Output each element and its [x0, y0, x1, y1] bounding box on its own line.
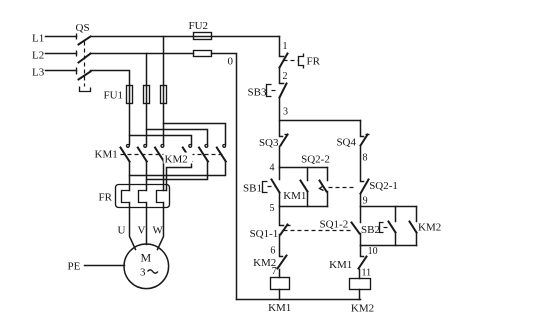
svg-text:L2: L2 [32, 50, 44, 62]
svg-text:PE: PE [68, 261, 81, 273]
svg-text:5: 5 [270, 203, 275, 214]
svg-text:8: 8 [363, 153, 368, 164]
svg-text:6: 6 [270, 246, 275, 257]
svg-text:M: M [140, 251, 151, 265]
svg-text:U: U [118, 225, 126, 237]
svg-text:3: 3 [140, 267, 146, 279]
svg-text:W: W [153, 225, 164, 237]
svg-text:0: 0 [228, 56, 234, 68]
svg-text:11: 11 [362, 267, 372, 278]
svg-text:KM2: KM2 [351, 303, 374, 315]
svg-text:SQ1-2: SQ1-2 [320, 219, 349, 231]
svg-text:KM1: KM1 [95, 149, 118, 161]
svg-text:2: 2 [283, 71, 288, 82]
svg-text:FR: FR [307, 56, 321, 68]
svg-text:V: V [138, 225, 146, 237]
svg-text:9: 9 [363, 195, 368, 206]
svg-text:SB3: SB3 [248, 87, 267, 99]
svg-text:KM1: KM1 [283, 190, 306, 202]
svg-text:7: 7 [272, 266, 277, 277]
svg-text:10: 10 [368, 246, 378, 257]
svg-text:SQ4: SQ4 [336, 137, 356, 149]
svg-text:3: 3 [283, 107, 288, 118]
svg-text:SQ2-1: SQ2-1 [369, 180, 398, 192]
svg-text:FR: FR [99, 192, 113, 204]
svg-text:KM2: KM2 [165, 154, 188, 166]
svg-text:SQ3: SQ3 [259, 137, 279, 149]
svg-text:QS: QS [76, 22, 90, 34]
svg-text:KM1: KM1 [268, 302, 291, 314]
svg-text:KM1: KM1 [329, 259, 352, 271]
svg-text:L1: L1 [32, 33, 44, 45]
svg-text:SB1: SB1 [243, 183, 262, 195]
svg-text:SQ1-1: SQ1-1 [250, 228, 279, 240]
svg-text:KM2: KM2 [418, 222, 441, 234]
svg-text:4: 4 [270, 163, 275, 174]
svg-text:1: 1 [283, 41, 288, 52]
svg-text:FU2: FU2 [189, 20, 209, 32]
svg-text:L3: L3 [32, 67, 45, 79]
svg-text:SB2: SB2 [361, 224, 380, 236]
svg-text:FU1: FU1 [104, 90, 124, 102]
svg-text:SQ2-2: SQ2-2 [301, 154, 330, 166]
